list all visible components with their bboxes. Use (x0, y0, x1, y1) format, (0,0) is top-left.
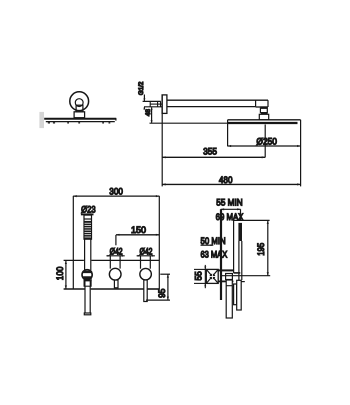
dimension 355 line (162, 156, 265, 158)
svg-text:G1/2: G1/2 (138, 81, 145, 95)
wall pipe stub extension line top (143, 100, 161, 102)
plate left edge / extension (72, 196, 74, 289)
50 MIN underline dimension (201, 244, 214, 246)
95 top extension line (160, 273, 170, 275)
shower head disc top line (228, 119, 301, 121)
gray wall mark (39, 112, 44, 128)
extension line at connector centre (264, 125, 266, 158)
hanging column: lever/outlet (left) (226, 280, 232, 318)
body bottom line (218, 280, 233, 282)
dimension 95 line (167, 274, 169, 300)
Ø23 dimension bar / handle cap (81, 213, 94, 215)
lever knob 1 (short) (114, 280, 118, 288)
Ø42 dimension (knob 2) (137, 255, 155, 257)
body top line (thick) (218, 269, 234, 271)
joint base (74, 112, 85, 118)
svg-text:Ø42: Ø42 (140, 246, 153, 256)
lever knob 2 (long) (144, 280, 147, 302)
hanging column: middle (234, 284, 237, 305)
holder collar (84, 279, 91, 281)
knob 1 (109, 268, 121, 280)
handle collar line (84, 218, 92, 220)
shower arm top line (167, 99, 268, 101)
Ø42 dimension (knob 1) (106, 255, 124, 257)
svg-text:69 MAX: 69 MAX (216, 212, 244, 223)
dimension 480 line (162, 183, 300, 185)
dimension 48 line with arrows (151, 108, 153, 123)
holder ring (82, 270, 92, 280)
hanging column: hand shower wand (right) (237, 280, 242, 310)
shower arm bottom line (167, 106, 256, 108)
connector dark band (261, 113, 268, 115)
svg-text:100: 100 (55, 267, 66, 281)
holder bracket line (233, 220, 235, 270)
dimension 55 line (204, 265, 206, 288)
body inner cartridge (226, 274, 233, 280)
plate right end cap (115, 118, 117, 120)
55 extension lines (194, 268, 206, 270)
wall line (161, 95, 163, 186)
head right extension line (300, 120, 302, 187)
svg-text:63 MAX: 63 MAX (201, 250, 228, 261)
wall pipe stub (144, 106, 162, 108)
svg-text:195: 195 (256, 243, 267, 256)
G1/2 dimension line with arrows (143, 95, 145, 101)
plate right edge / extension (158, 196, 160, 289)
wall escutcheon flange (162, 95, 167, 114)
dimension Ø250 line (228, 145, 301, 147)
wand end cap (84, 313, 91, 315)
arm end block (255, 100, 257, 106)
195 top extension line (233, 219, 269, 221)
svg-text:355: 355 (203, 147, 217, 158)
handle grip (hatched) (85, 221, 92, 239)
95 bottom extension line (146, 299, 170, 301)
head left extension line (227, 120, 229, 147)
dimension 195 line (267, 221, 269, 276)
joint stem (76, 105, 83, 112)
head plate top (thick) (44, 118, 116, 120)
connector base (259, 114, 268, 120)
plate bottom line (64, 288, 85, 290)
valve box diagonals (206, 269, 218, 283)
svg-text:55: 55 (193, 271, 204, 280)
150 left extension line (115, 235, 117, 245)
hand shower handle (black, side) (238, 223, 242, 241)
svg-text:Ø42: Ø42 (110, 246, 123, 256)
hand shower wand (side) (238, 241, 240, 280)
svg-text:95: 95 (157, 289, 168, 298)
head plate bottom edge (46, 121, 115, 123)
nozzle dots (48, 122, 111, 123)
extension line from head bottom to 48 dim (150, 122, 228, 124)
dimension 100 line (65, 261, 67, 289)
dimension 150 line (116, 234, 159, 236)
connector flange bar (260, 106, 267, 108)
body top step (233, 270, 235, 273)
ball joint outer circle (70, 92, 89, 111)
shower head disc bottom (thick) (227, 122, 298, 124)
knob 2 (140, 268, 152, 280)
dimension 55 MIN line (221, 208, 241, 210)
hand shower tube (84, 239, 86, 270)
hand shower handle outline (84, 215, 92, 239)
55 MIN right extension (240, 209, 242, 220)
dimension 300 line (73, 195, 159, 197)
wall line (thick) (220, 209, 222, 300)
svg-text:55 MIN: 55 MIN (216, 198, 243, 209)
195 bottom extension line (222, 275, 270, 277)
lower collar (84, 281, 91, 287)
plate top line (64, 259, 84, 261)
valve centre (210, 274, 216, 280)
wand lower tube (84, 286, 86, 313)
connector mid piece (260, 108, 267, 112)
ball joint inner circle (75, 99, 83, 107)
valve box (206, 269, 218, 283)
